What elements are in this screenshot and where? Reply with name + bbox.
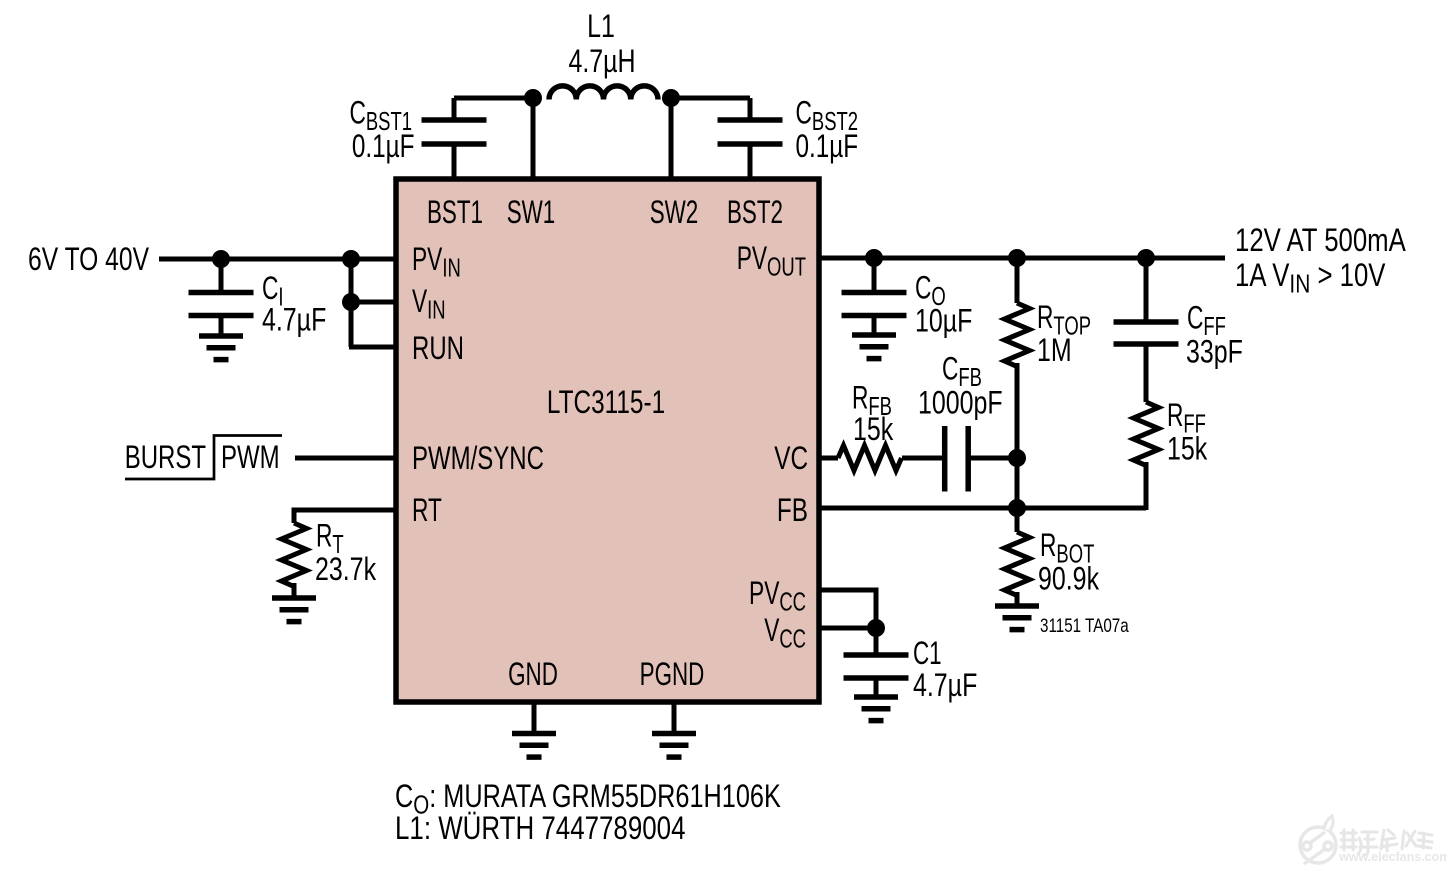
wire PGND pin: [672, 702, 677, 731]
wire RBOT to ground: [1015, 592, 1020, 605]
svg-text:23.7k: 23.7k: [315, 552, 377, 588]
svg-text:LTC3115-1: LTC3115-1: [547, 385, 665, 421]
svg-text:PWM/SYNC: PWM/SYNC: [412, 440, 544, 476]
resistor RBOT: [1005, 532, 1030, 596]
svg-text:1M: 1M: [1037, 333, 1072, 369]
ground PGND: [652, 734, 696, 758]
wire RT to ground: [292, 583, 297, 597]
svg-text:RT: RT: [412, 492, 442, 528]
svg-text:GND: GND: [508, 656, 558, 692]
node RTOP junction: [1008, 249, 1026, 267]
wire VIN: [351, 300, 396, 305]
svg-text:BST2: BST2: [727, 194, 783, 230]
wire RFB to CFB: [902, 456, 943, 461]
svg-text:FB: FB: [777, 493, 808, 529]
resistor RT: [282, 523, 307, 587]
wire SW2 to CBST2 top: [671, 96, 750, 101]
node CO junction: [865, 249, 883, 267]
wire RUN: [349, 345, 396, 350]
capacitor CI: [189, 259, 254, 334]
svg-text:PWM: PWM: [221, 439, 280, 475]
svg-text:RUN: RUN: [412, 330, 464, 366]
svg-text:SW1: SW1: [507, 194, 556, 230]
svg-text:1A VIN > 10V: 1A VIN > 10V: [1235, 258, 1386, 299]
wire VC pin: [819, 456, 838, 461]
wire PVIN input rail: [159, 257, 396, 262]
capacitor CO: [842, 258, 907, 333]
node VCC junction: [867, 619, 885, 637]
capacitor CBST1: [422, 98, 487, 179]
svg-text:1000pF: 1000pF: [918, 386, 1003, 422]
wire VIN vertical drop: [349, 257, 354, 347]
svg-text:10µF: 10µF: [915, 304, 972, 340]
svg-text:PGND: PGND: [640, 656, 705, 692]
IC U1 LTC3115-1 body: [396, 179, 819, 702]
capacitor CFB: [945, 426, 969, 492]
svg-text:12V AT 500mA: 12V AT 500mA: [1235, 223, 1406, 258]
wire RT pin: [294, 510, 396, 523]
ground CI: [199, 336, 243, 360]
resistor RTOP: [1005, 303, 1030, 367]
node FB junction: [1008, 499, 1026, 517]
wire RTOP from rail: [1015, 258, 1020, 303]
node PVIN junction at VIN drop: [342, 250, 360, 268]
node CFF junction: [1137, 249, 1155, 267]
wire FB to RBOT: [1015, 508, 1020, 532]
capacitor C1: [844, 628, 909, 695]
inductor L1: [549, 86, 658, 100]
svg-text:C1: C1: [913, 635, 942, 671]
svg-text:90.9k: 90.9k: [1038, 562, 1100, 598]
wire FB pin: [819, 506, 1146, 511]
svg-text:SW2: SW2: [650, 194, 699, 230]
resistor RFF: [1134, 402, 1159, 466]
wire SW2 pin: [669, 98, 674, 179]
burst/pwm mode waveform symbol: [125, 436, 282, 480]
watermark brand glyphs: [1341, 830, 1432, 855]
node VC junction: [1008, 449, 1026, 467]
wire PVOUT output rail: [819, 256, 1225, 261]
wire PWM/SYNC: [295, 456, 396, 461]
wire CBST1 top to SW1: [454, 96, 533, 101]
node SW1 junction: [524, 89, 542, 107]
ground CO: [852, 335, 896, 359]
wire PVCC pin: [819, 590, 876, 628]
node SW2 junction: [662, 89, 680, 107]
capacitor CBST2: [718, 98, 783, 179]
svg-text:L1: L1: [587, 9, 615, 45]
wire VCC pin: [819, 626, 876, 631]
svg-text:www.elecfans.com: www.elecfans.com: [1338, 850, 1447, 864]
wire GND pin: [532, 702, 537, 731]
svg-text:0.1µF: 0.1µF: [352, 129, 415, 165]
svg-text:4.7µH: 4.7µH: [568, 44, 635, 80]
wire CFB to VC node: [970, 456, 1017, 461]
resistor RFB: [838, 446, 902, 471]
svg-text:31151 TA07a: 31151 TA07a: [1040, 614, 1129, 636]
capacitor CFF: [1114, 258, 1179, 402]
svg-text:4.7µF: 4.7µF: [262, 303, 326, 339]
svg-text:4.7µF: 4.7µF: [913, 668, 977, 704]
svg-text:6V TO 40V: 6V TO 40V: [28, 242, 149, 278]
wire SW1 pin: [531, 98, 536, 179]
svg-text:33pF: 33pF: [1186, 335, 1243, 371]
svg-text:BST1: BST1: [427, 194, 483, 230]
ground RBOT: [995, 606, 1039, 630]
svg-text:VC: VC: [774, 441, 808, 477]
ground RT: [272, 598, 316, 622]
wire RFF to FB wire: [1144, 462, 1149, 510]
svg-text:BURST: BURST: [125, 439, 206, 475]
ground GND: [512, 734, 556, 758]
node VIN junction: [342, 293, 360, 311]
svg-text:15k: 15k: [853, 412, 894, 448]
watermark logo: [1300, 816, 1336, 864]
ground C1: [854, 697, 898, 721]
node PVIN junction at CI: [212, 250, 230, 268]
wire RTOP to FB node: [1015, 363, 1020, 508]
svg-text:15k: 15k: [1167, 432, 1208, 468]
svg-text:L1: WÜRTH 7447789004: L1: WÜRTH 7447789004: [395, 812, 685, 847]
svg-text:0.1µF: 0.1µF: [796, 129, 859, 165]
